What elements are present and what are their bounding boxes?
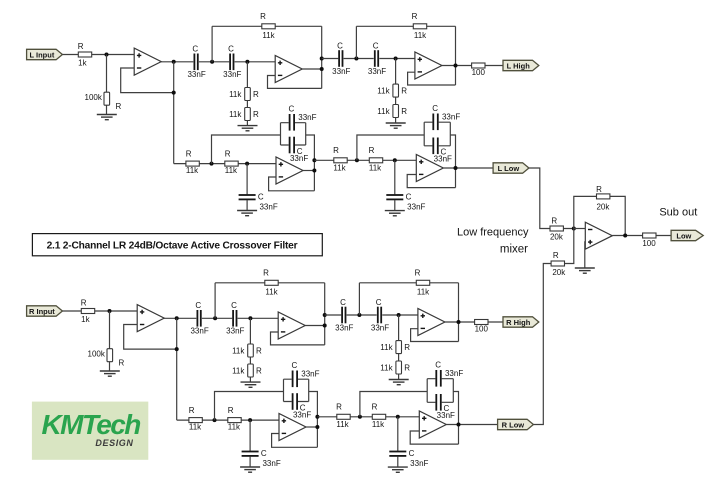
wire R Low to mixer — [533, 264, 551, 425]
capacitor C 33nF pair lp2 feedback — [424, 104, 460, 164]
svg-text:R: R — [253, 110, 259, 119]
wire sum to op — [574, 228, 586, 230]
svg-text:R: R — [551, 216, 557, 225]
svg-text:R: R — [225, 149, 231, 158]
svg-text:33nF: 33nF — [259, 203, 277, 212]
wire hp2 to op — [379, 58, 415, 60]
resistor R 11k lp2b — [369, 146, 383, 173]
capacitor C 33nF lp1 shunt — [239, 193, 278, 212]
junction input node — [105, 53, 109, 57]
wire lp1 fb tap — [215, 392, 284, 421]
wire lp1 shunt top — [249, 420, 251, 451]
op-amp U mixer — [585, 222, 612, 249]
junction lp1 mid — [213, 418, 217, 422]
svg-text:R: R — [189, 406, 195, 415]
capacitor C 33nF hp2b — [368, 41, 386, 76]
op-amp U buffer — [137, 305, 164, 332]
svg-text:11k: 11k — [377, 87, 390, 96]
junction hp2 shunt — [394, 57, 398, 61]
svg-text:C: C — [195, 301, 201, 310]
junction lp2 mid — [355, 158, 359, 162]
svg-text:11k: 11k — [189, 423, 202, 432]
svg-text:C: C — [231, 301, 237, 310]
svg-text:33nF: 33nF — [187, 70, 205, 79]
junction feedback branch — [175, 347, 179, 351]
wire hp1 fb up — [211, 26, 213, 62]
wire lp1 shunt bot — [246, 200, 248, 211]
wire lp1 shunt bot — [249, 457, 251, 468]
junction lp1 out b — [315, 425, 319, 429]
op-amp U hp2 — [418, 309, 445, 336]
wire hp1 mid — [202, 317, 232, 319]
svg-text:C: C — [192, 45, 198, 54]
svg-text:R: R — [119, 358, 125, 367]
capacitor C 33nF hp2a — [332, 41, 350, 76]
svg-text:DESIGN: DESIGN — [95, 438, 133, 448]
wire buffer output — [160, 61, 193, 63]
svg-text:100: 100 — [475, 324, 489, 333]
resistor R 100k bias — [88, 349, 125, 368]
svg-text:R: R — [228, 406, 234, 415]
wire hp2 in — [322, 58, 339, 60]
wire hp2 in — [325, 314, 342, 316]
wire lp2 row — [314, 159, 416, 161]
op-amp U lp1 — [279, 414, 306, 441]
resistor R 11k hp1 shunt a — [232, 344, 262, 357]
junction lp1 shunt — [245, 162, 249, 166]
svg-text:R: R — [336, 403, 342, 412]
svg-text:mixer: mixer — [500, 243, 528, 255]
wire mixer in2 — [551, 229, 574, 264]
wire hp1 fb row — [212, 25, 322, 27]
svg-text:11k: 11k — [369, 164, 382, 173]
resistor R 11k hp1 feedback — [263, 269, 279, 297]
wire lp1 box out — [309, 392, 318, 448]
resistor R 11k hp2 shunt b — [377, 105, 407, 118]
ground hp1 shunt — [241, 382, 261, 387]
wire buffer output — [163, 317, 196, 319]
op-amp U lp2 — [416, 155, 443, 182]
resistor R 11k hp1 shunt b — [229, 108, 259, 121]
ground lp1 shunt — [240, 467, 260, 472]
wire hp2 fb up — [358, 283, 360, 315]
svg-text:L Low: L Low — [498, 164, 520, 173]
svg-text:11k: 11k — [232, 366, 245, 375]
wire mixer plus to ground — [584, 242, 587, 268]
wire lp1 op feedback — [272, 434, 318, 448]
wire lp1 op out — [303, 170, 314, 172]
wire hp1 to op — [238, 317, 279, 319]
svg-text:C: C — [376, 298, 382, 307]
svg-text:C: C — [292, 361, 298, 370]
op-amp U hp2 — [415, 52, 442, 79]
wire lp2 op out — [446, 424, 497, 426]
resistor R 20k mixer feedback — [596, 185, 610, 212]
wire hp1 op out — [302, 68, 322, 70]
svg-text:R: R — [116, 102, 122, 111]
wire hp2 mid — [347, 314, 377, 316]
wire mixer out — [612, 235, 671, 237]
svg-text:R: R — [415, 269, 421, 278]
svg-text:11k: 11k — [232, 346, 245, 355]
node Low sub output tag — [671, 230, 703, 240]
ground lp2 shunt — [388, 467, 408, 472]
svg-text:L Input: L Input — [29, 50, 54, 59]
resistor R 1k input — [78, 42, 92, 67]
svg-text:33nF: 33nF — [262, 459, 280, 468]
ground hp2 shunt — [389, 380, 409, 385]
title box — [32, 234, 322, 256]
svg-text:R: R — [369, 146, 375, 155]
junction hp2 mid — [354, 57, 358, 61]
wire lp1 row — [174, 163, 276, 165]
capacitor C 33nF hp1a — [187, 45, 205, 80]
svg-text:20k: 20k — [550, 233, 564, 242]
svg-text:KMTech: KMTech — [42, 409, 141, 440]
capacitor C 33nF pair lp1 feedback — [281, 104, 317, 162]
junction lp2 mid — [358, 415, 362, 419]
capacitor C 33nF lp1 shunt — [242, 449, 281, 468]
node R Low output tag — [498, 419, 534, 429]
op-amp U hp1 — [275, 56, 302, 83]
junction hp1 mid — [210, 60, 214, 64]
svg-text:33nF: 33nF — [410, 459, 428, 468]
junction lp2 shunt — [393, 158, 397, 162]
svg-text:33nF: 33nF — [298, 113, 316, 122]
svg-text:C: C — [435, 360, 441, 369]
svg-text:C: C — [373, 41, 379, 50]
svg-text:R: R — [372, 403, 378, 412]
wire hp1 out vertical — [324, 283, 326, 345]
resistor R 11k lp1a — [186, 149, 199, 175]
wire hp1 op feedback — [271, 332, 325, 345]
junction buffer out — [172, 60, 176, 64]
label Low frequency mixer — [457, 226, 529, 255]
wire lp2 fb tap — [360, 392, 427, 417]
resistor R 100 high out — [472, 63, 486, 77]
junction hp2 out — [454, 64, 458, 68]
resistor R 11k hp2 shunt b — [380, 361, 410, 374]
svg-text:33nF: 33nF — [226, 327, 244, 336]
junction lp2 out — [457, 423, 461, 427]
svg-text:C: C — [406, 193, 412, 202]
wire lp2 shunt bot — [394, 200, 396, 211]
resistor R 11k hp2 feedback — [415, 269, 431, 297]
svg-text:11k: 11k — [262, 31, 275, 40]
junction hp1 out a — [320, 67, 324, 71]
resistor R 11k lp1a — [189, 406, 202, 432]
svg-text:33nF: 33nF — [437, 411, 455, 420]
junction lp1 shunt — [248, 418, 252, 422]
junction input node — [108, 309, 112, 313]
ground hp2 shunt — [386, 123, 406, 128]
svg-text:C: C — [337, 41, 343, 50]
op-amp U buffer — [134, 48, 161, 75]
junction hp1 mid — [213, 316, 217, 320]
wire to 100k — [109, 311, 111, 371]
svg-text:C: C — [261, 449, 267, 458]
junction hp2 mid — [357, 313, 361, 317]
svg-text:R: R — [263, 269, 269, 278]
junction lp2 shunt — [396, 415, 400, 419]
wire lp2 box out — [453, 392, 458, 445]
svg-text:R: R — [78, 42, 84, 51]
wire input to R — [62, 310, 137, 312]
resistor R 11k hp2 shunt a — [380, 341, 410, 354]
node L High output tag — [503, 60, 539, 70]
label Sub out — [659, 207, 697, 219]
junction hp1 out b — [320, 57, 324, 61]
wire hp1 shunt — [246, 62, 248, 126]
resistor R 11k lp1b — [228, 406, 241, 432]
svg-text:C: C — [432, 104, 438, 113]
svg-text:100k: 100k — [88, 350, 106, 359]
svg-text:20k: 20k — [552, 268, 566, 277]
svg-text:33nF: 33nF — [190, 327, 208, 336]
wire hp2 op out — [442, 65, 503, 67]
svg-text:100: 100 — [642, 239, 656, 248]
svg-text:33nF: 33nF — [445, 369, 463, 378]
svg-text:100: 100 — [472, 68, 486, 77]
junction hp2 shunt — [397, 313, 401, 317]
svg-text:1k: 1k — [81, 315, 90, 324]
svg-text:33nF: 33nF — [332, 67, 350, 76]
junction lp2 out — [454, 166, 458, 170]
op-amp U lp2 — [419, 411, 446, 438]
wire hp2 shunt — [398, 315, 400, 380]
junction lp1 out a — [315, 415, 319, 419]
wire lp1 box out — [306, 135, 315, 191]
capacitor C 33nF hp1a — [190, 301, 208, 336]
svg-text:11k: 11k — [377, 107, 390, 116]
resistor R 20k mixer in2 — [551, 251, 566, 277]
junction mixer sum node — [572, 227, 576, 231]
wire lp1 op out — [306, 426, 317, 428]
svg-text:Low: Low — [676, 231, 691, 240]
svg-text:33nF: 33nF — [293, 410, 311, 419]
wire lp2 op feedback — [407, 175, 455, 188]
junction lp1 out b — [312, 169, 316, 173]
wire lp2 shunt top — [394, 160, 396, 194]
svg-text:2.1 2-Channel LR 24dB/Octave A: 2.1 2-Channel LR 24dB/Octave Active Cros… — [47, 241, 298, 252]
resistor R 11k hp1 feedback — [260, 12, 276, 40]
svg-text:11k: 11k — [333, 164, 346, 173]
wire lp1 fb tap — [212, 135, 281, 164]
capacitor C 33nF hp2a — [335, 298, 353, 333]
junction mixer out — [623, 234, 627, 238]
wire lp1 shunt top — [246, 164, 248, 195]
svg-text:11k: 11k — [372, 420, 385, 429]
svg-text:33nF: 33nF — [442, 113, 460, 122]
wire hp2 to op — [382, 314, 418, 316]
resistor R 11k hp1 shunt b — [232, 364, 262, 377]
svg-text:33nF: 33nF — [368, 67, 386, 76]
svg-text:11k: 11k — [225, 166, 238, 175]
svg-text:R: R — [401, 107, 407, 116]
resistor R 11k lp1b — [225, 149, 238, 175]
junction feedback branch — [172, 91, 176, 95]
node L Input input tag — [27, 49, 63, 59]
resistor R 100 sub out — [642, 233, 656, 248]
junction hp1 out b — [323, 313, 327, 317]
wire mixer feedback — [574, 196, 625, 235]
resistor R 20k mixer in1 — [550, 216, 564, 241]
svg-text:33nF: 33nF — [223, 70, 241, 79]
ground below 100k — [97, 115, 117, 120]
svg-text:11k: 11k — [380, 343, 393, 352]
wire hp1 fb row — [215, 282, 325, 284]
svg-text:11k: 11k — [229, 110, 242, 119]
op-amp U hp1 — [278, 312, 305, 339]
svg-text:11k: 11k — [186, 166, 199, 175]
svg-text:R: R — [256, 346, 262, 355]
capacitor C 33nF pair lp1 feedback — [284, 361, 320, 420]
resistor R 11k hp1 shunt a — [229, 88, 259, 101]
svg-text:R: R — [256, 366, 262, 375]
ground hp1 shunt — [238, 126, 258, 131]
svg-text:R: R — [81, 298, 87, 307]
resistor R 11k lp2a — [336, 403, 350, 430]
wire buffer feedback — [121, 68, 174, 93]
svg-text:R: R — [404, 343, 410, 352]
resistor R 11k hp2 feedback — [412, 12, 428, 40]
svg-text:100k: 100k — [85, 93, 103, 102]
wire input to R — [62, 54, 134, 56]
svg-text:R Input: R Input — [29, 307, 55, 316]
svg-text:11k: 11k — [229, 90, 242, 99]
svg-text:33nF: 33nF — [407, 203, 425, 212]
wire L Low to mixer — [529, 168, 574, 229]
logo KMTech design — [32, 402, 148, 460]
svg-text:33nF: 33nF — [290, 154, 308, 163]
wire hp2 fb row — [356, 25, 455, 27]
wire hp1 mid — [199, 61, 229, 63]
wire lp1 row — [177, 419, 279, 421]
junction lp1 mid — [210, 162, 214, 166]
svg-text:C: C — [228, 45, 234, 54]
svg-text:R: R — [553, 251, 559, 260]
wire hp1 out vertical — [321, 26, 323, 88]
junction lp1 out a — [312, 158, 316, 162]
wire lp1 op feedback — [269, 177, 315, 191]
ground lp2 shunt — [385, 211, 405, 216]
resistor R 1k input — [81, 298, 95, 323]
resistor R 11k lp2a — [333, 146, 347, 173]
resistor R 100 high out — [475, 320, 489, 334]
svg-text:C: C — [340, 298, 346, 307]
svg-text:R: R — [404, 363, 410, 372]
junction hp1 shunt — [245, 60, 249, 64]
node R Input input tag — [27, 306, 63, 316]
wire lp2 row — [317, 416, 419, 418]
wire lp2 op out — [443, 167, 493, 169]
resistor R 11k lp2b — [372, 403, 386, 430]
op-amp U lp1 — [276, 157, 303, 184]
svg-text:R Low: R Low — [502, 420, 525, 429]
wire hp1 op out — [305, 325, 325, 327]
svg-text:33nF: 33nF — [335, 323, 353, 332]
svg-text:R: R — [333, 146, 339, 155]
svg-text:R: R — [401, 87, 407, 96]
svg-text:11k: 11k — [228, 423, 241, 432]
wire hp2 op feedback — [408, 72, 456, 85]
capacitor C 33nF hp2b — [371, 298, 389, 333]
wire hp2 fb row — [359, 282, 458, 284]
svg-text:1k: 1k — [78, 58, 87, 67]
svg-text:R: R — [253, 90, 259, 99]
svg-text:11k: 11k — [414, 31, 427, 40]
svg-text:R: R — [412, 12, 418, 21]
wire hp2 op out — [445, 321, 503, 323]
node R High output tag — [503, 317, 539, 327]
wire hp2 out vertical — [458, 283, 460, 342]
wire branch to lowpass — [176, 318, 178, 420]
wire hp2 out vertical — [455, 26, 457, 85]
svg-text:20k: 20k — [596, 202, 610, 211]
capacitor C 33nF pair lp2 feedback — [427, 360, 463, 420]
svg-text:11k: 11k — [265, 287, 278, 296]
wire buffer feedback — [124, 325, 177, 350]
resistor R 11k hp2 shunt a — [377, 84, 407, 97]
svg-text:Sub out: Sub out — [659, 207, 697, 219]
wire hp1 fb up — [214, 283, 216, 319]
svg-text:33nF: 33nF — [434, 155, 452, 164]
svg-text:11k: 11k — [336, 420, 349, 429]
capacitor C 33nF hp1b — [223, 45, 241, 80]
wire hp1 shunt — [249, 318, 251, 382]
svg-text:Low frequency: Low frequency — [457, 226, 529, 238]
wire lp2 shunt top — [397, 417, 399, 451]
svg-text:11k: 11k — [417, 287, 430, 296]
svg-text:11k: 11k — [380, 363, 393, 372]
resistor R 100k bias — [85, 92, 122, 111]
ground below 100k — [100, 371, 120, 376]
junction hp2 out — [457, 320, 461, 324]
svg-text:L High: L High — [507, 61, 531, 70]
capacitor C 33nF lp2 shunt — [386, 193, 425, 212]
svg-text:C: C — [258, 193, 264, 202]
node L Low output tag — [493, 163, 529, 173]
svg-text:C: C — [409, 449, 415, 458]
junction hp1 out a — [323, 324, 327, 328]
wire branch to lowpass — [173, 62, 175, 164]
svg-text:R: R — [260, 12, 266, 21]
junction hp1 shunt — [248, 316, 252, 320]
wire to 100k — [106, 55, 108, 115]
capacitor C 33nF hp1b — [226, 301, 244, 336]
wire hp1 to op — [235, 61, 276, 63]
svg-text:R: R — [596, 185, 602, 194]
wire hp2 fb up — [355, 26, 357, 58]
wire hp2 mid — [344, 58, 374, 60]
wire hp2 shunt — [395, 59, 397, 124]
wire lp2 box out — [450, 135, 455, 188]
wire hp2 op feedback — [411, 329, 459, 342]
junction buffer out — [175, 316, 179, 320]
svg-text:R: R — [186, 149, 192, 158]
capacitor C 33nF lp2 shunt — [389, 449, 428, 468]
svg-text:C: C — [289, 104, 295, 113]
wire hp1 op feedback — [268, 76, 322, 89]
ground mixer — [575, 268, 595, 273]
wire lp2 op feedback — [410, 431, 458, 444]
svg-text:33nF: 33nF — [301, 370, 319, 379]
svg-text:33nF: 33nF — [371, 323, 389, 332]
svg-text:R High: R High — [506, 318, 531, 327]
ground lp1 shunt — [237, 211, 257, 216]
wire lp2 fb tap — [357, 135, 424, 160]
wire lp2 shunt bot — [397, 457, 399, 468]
